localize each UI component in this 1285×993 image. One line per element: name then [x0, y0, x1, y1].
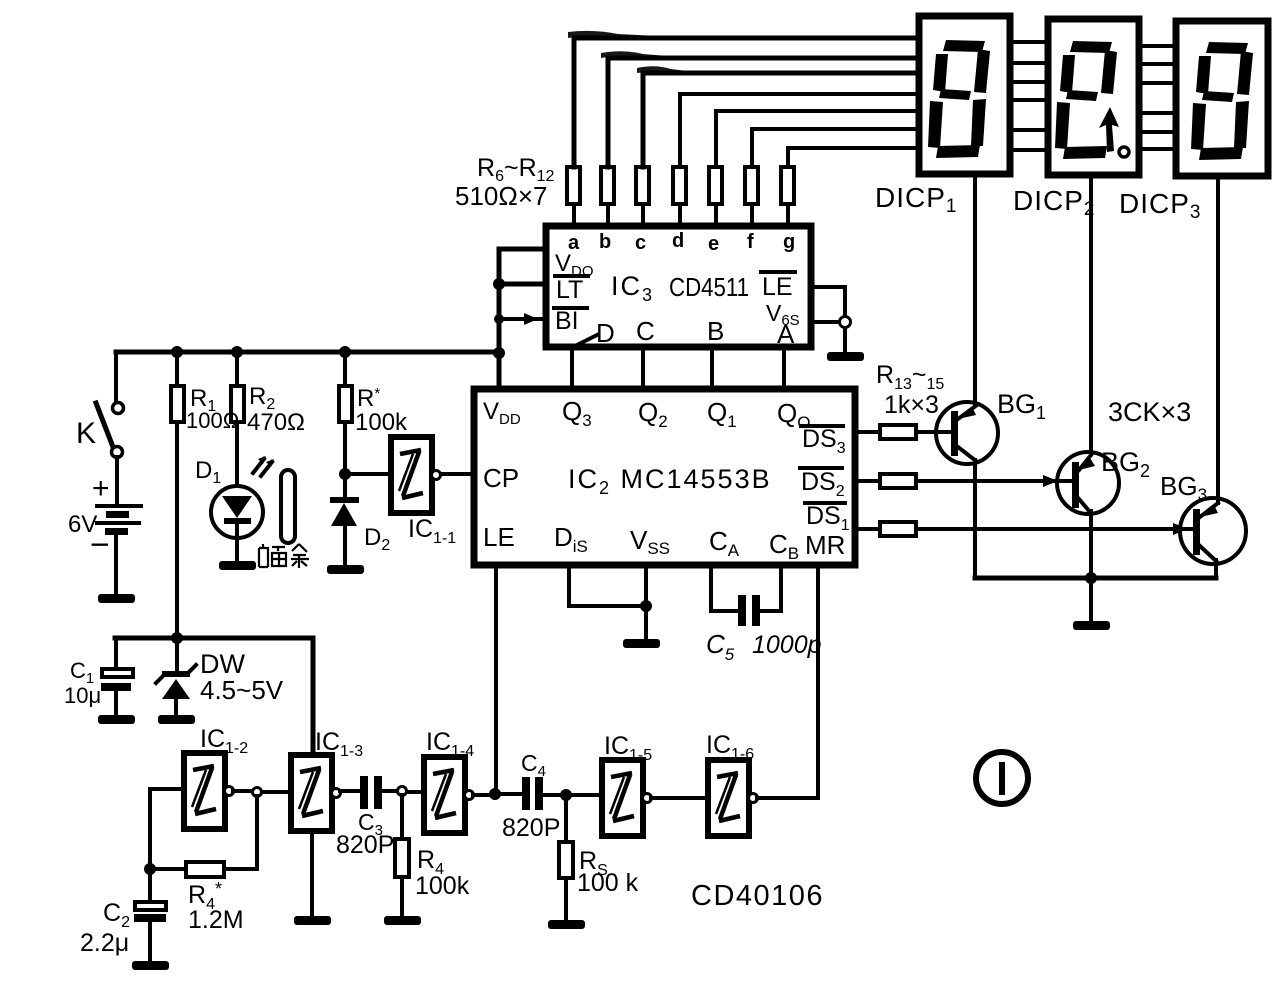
- wire R7 to IC3 pin b: [606, 204, 610, 226]
- inverter IC1-1: [391, 437, 441, 513]
- svg-text:f: f: [747, 231, 754, 253]
- resistor R2: [231, 352, 244, 422]
- svg-text:100k: 100k: [415, 872, 470, 900]
- svg-text:LE: LE: [483, 522, 515, 552]
- svg-text:820P: 820P: [336, 831, 394, 859]
- svg-text:DICP2: DICP2: [1013, 185, 1095, 220]
- wire IC1-2 output to node: [233, 789, 252, 793]
- wire R10 to IC3 pin e: [714, 204, 718, 226]
- wire Q0 to A: [782, 347, 786, 389]
- wire BG3 emitter down: [1214, 560, 1218, 578]
- node after IC1-2: [253, 788, 262, 797]
- LED light arrows: [253, 456, 274, 476]
- svg-text:2.2μ: 2.2μ: [80, 929, 129, 957]
- wire R12 to IC3 pin g: [786, 204, 790, 226]
- capacitor C5: [738, 595, 760, 626]
- wire common emitter rail: [975, 576, 1216, 581]
- wire battery to ground: [114, 535, 118, 593]
- arrowhead on BG2 base wire: [1043, 475, 1058, 487]
- svg-text:CP: CP: [483, 463, 519, 493]
- ground D1: [219, 561, 256, 570]
- wire R13 to BG1 base: [916, 430, 950, 434]
- node Rstar/D2/IC1-1: [339, 468, 351, 480]
- svg-text:510Ω×7: 510Ω×7: [455, 181, 547, 211]
- svg-text:D: D: [596, 318, 615, 348]
- wire LT to IC3: [499, 282, 546, 287]
- 7-segment display DICP3: [1176, 21, 1268, 176]
- arrowhead on BI wire: [524, 313, 538, 325]
- wire IC1-6 output to MR: [757, 565, 818, 798]
- resistor R7: [601, 167, 614, 204]
- svg-text:3CK×3: 3CK×3: [1108, 397, 1191, 427]
- wire VDD to IC3: [499, 247, 546, 252]
- label fu tiao (Chinese): [259, 544, 309, 568]
- IC2 pin label DS1: [805, 502, 850, 534]
- wire IC1-5 output to IC1-6: [651, 796, 708, 800]
- wire IC1-3 bottom to ground: [310, 831, 314, 914]
- resistor R1: [171, 352, 184, 422]
- resistor R15: [880, 522, 916, 536]
- IC2 pin label DS3: [801, 425, 846, 457]
- svg-text:LE: LE: [762, 273, 793, 301]
- wire Dis pin down: [569, 565, 646, 606]
- wire C4 to node: [543, 793, 566, 797]
- capacitor C3: [360, 776, 382, 809]
- node rail R1: [171, 346, 183, 358]
- wire segment g (R12 to DICP1): [788, 148, 919, 167]
- wire VDD feed vertical: [497, 249, 502, 389]
- wire C3 to node: [382, 789, 397, 793]
- wire LE vertical: [494, 565, 498, 794]
- wire low rail down right to IC1-3: [311, 638, 316, 752]
- resistor R9: [673, 167, 686, 204]
- 7-segment display DICP1: [919, 16, 1010, 174]
- inverter IC1-4: [424, 757, 474, 833]
- svg-text:A: A: [777, 319, 795, 349]
- wire rail to switch: [114, 352, 118, 403]
- node rail Rstar: [339, 346, 351, 358]
- supply rail wire: [116, 350, 499, 355]
- wire IC1-4 output to node: [473, 793, 495, 797]
- wire segment f (R11 to DICP1): [752, 129, 919, 167]
- wire DS3 stub: [858, 430, 880, 434]
- wire Vss pin to ground: [644, 565, 648, 637]
- wire R14 to BG2 base: [916, 479, 1071, 483]
- IC3 pin labels a-g: [568, 230, 795, 255]
- resistor R13: [880, 425, 916, 439]
- svg-text:100k: 100k: [355, 409, 408, 436]
- svg-text:−: −: [90, 526, 110, 564]
- wire BG2 emitter down: [1089, 511, 1093, 578]
- IC3 pin label BI: [554, 307, 587, 335]
- wire IC3 LE to right: [811, 287, 845, 322]
- inverter IC1-6: [708, 760, 758, 836]
- wire Q2 to C: [641, 347, 645, 389]
- op IC3 CD4511 body: [546, 226, 811, 347]
- wire R6 to IC3 pin a: [572, 204, 576, 226]
- wires DICP1 to DICP2: [1012, 42, 1046, 150]
- wire node to IC1-4 input: [407, 790, 424, 794]
- op IC2 MC14553B body: [474, 389, 855, 565]
- capacitor C1: [101, 638, 133, 714]
- inverter IC1-5: [602, 760, 652, 836]
- wire BI to IC3: [499, 317, 546, 321]
- svg-text:e: e: [708, 233, 719, 255]
- wire Q3 to D: [570, 347, 574, 389]
- wire segment e (R10 to DICP1): [716, 111, 919, 167]
- wire D1 to ground: [235, 537, 239, 560]
- svg-text:LT: LT: [556, 276, 583, 304]
- wire CA to C5: [711, 565, 738, 611]
- resistor R5: [559, 795, 573, 918]
- svg-text:470Ω: 470Ω: [247, 409, 305, 436]
- node feedback/C2: [144, 863, 156, 875]
- wire segment d (R9 to DICP1): [680, 94, 919, 167]
- wire segment b (R7 to DICP1): [608, 58, 919, 167]
- svg-text:1k×3: 1k×3: [884, 391, 939, 419]
- wire Rstar to node: [343, 422, 347, 474]
- resistor R8: [636, 167, 649, 204]
- spoke bar symbol: [281, 470, 295, 543]
- svg-text:IC2 MC14553B: IC2 MC14553B: [568, 464, 772, 498]
- ground transistors: [1073, 621, 1110, 630]
- node LE junction: [489, 788, 501, 800]
- switch K: [96, 403, 124, 458]
- zener diode Dw: [156, 638, 196, 714]
- capacitor C4: [522, 777, 543, 810]
- wire low supply rail: [115, 636, 313, 641]
- svg-text:DICP1: DICP1: [875, 182, 957, 217]
- diode D2: [330, 474, 359, 564]
- wire R8 to IC3 pin c: [641, 204, 645, 226]
- wire R2 to LED D1: [235, 422, 239, 486]
- inverter IC1-2: [184, 753, 234, 829]
- svg-text:CD40106: CD40106: [691, 880, 824, 912]
- wire segment a (R6 to DICP1): [574, 38, 919, 167]
- resistor R6: [567, 167, 580, 204]
- wire feedback left vertical: [148, 789, 152, 869]
- wire R11 to IC3 pin f: [750, 204, 754, 226]
- wire R15 to BG3 base: [916, 527, 1192, 531]
- ground IC2 Vss: [623, 639, 660, 648]
- resistor R11: [745, 167, 758, 204]
- node LT junction: [493, 278, 505, 290]
- wire switch to battery: [115, 457, 119, 504]
- ground for IC3 Vss: [827, 352, 864, 361]
- slash mark under BI: [573, 335, 597, 347]
- battery 6V: [97, 506, 141, 535]
- ground R5: [548, 920, 585, 929]
- node LE/Vss junction: [840, 317, 851, 328]
- svg-text:MR: MR: [805, 530, 845, 560]
- node emitter rail: [1085, 572, 1097, 584]
- wires DICP2 to DICP3: [1141, 46, 1174, 149]
- wire DICP2 common to BG2 collector: [1089, 178, 1093, 453]
- svg-text:820P: 820P: [502, 814, 560, 842]
- wire R9 to IC3 pin d: [678, 204, 682, 226]
- ground R4: [384, 916, 421, 925]
- wire DS1 stub: [858, 527, 880, 531]
- svg-text:100 k: 100 k: [577, 869, 639, 897]
- svg-text:4.5~5V: 4.5~5V: [200, 675, 284, 705]
- wire BG1 emitter down: [973, 460, 977, 578]
- transistor BG1: [936, 402, 998, 464]
- figure number circled 1: [976, 752, 1028, 804]
- node Dis/Vss: [640, 600, 652, 612]
- ground C1: [98, 715, 135, 724]
- svg-text:BI: BI: [555, 307, 579, 335]
- wire DICP3 common to BG3 collector: [1216, 179, 1220, 503]
- wire node to C4: [495, 792, 522, 796]
- wire IC1-1 to CP: [441, 472, 474, 476]
- node rail R2: [231, 346, 243, 358]
- svg-text:K: K: [76, 417, 96, 450]
- resistor R12: [781, 167, 794, 204]
- arrowhead on BG3 base wire: [1173, 523, 1188, 535]
- node after C3: [398, 787, 407, 796]
- svg-text:b: b: [599, 231, 611, 253]
- wire DICP1 common to BG1 collector: [973, 177, 977, 404]
- svg-text:1.2M: 1.2M: [188, 906, 244, 934]
- svg-text:10μ: 10μ: [64, 683, 101, 708]
- node after C4: [560, 789, 572, 801]
- node low rail Dw: [171, 632, 183, 644]
- resistor R4: [395, 795, 409, 914]
- ground Dw: [158, 715, 195, 724]
- svg-text:+: +: [92, 472, 110, 505]
- capacitor C2: [134, 869, 166, 959]
- wire IC1-3 output to C3: [340, 789, 360, 793]
- IC3 pin label LE: [761, 272, 795, 301]
- resistor Rstar: [339, 352, 352, 422]
- wire DS2 stub: [858, 479, 880, 483]
- wire Q1 to B: [710, 347, 714, 389]
- wire node down to R4star: [224, 796, 257, 869]
- ground battery: [98, 594, 135, 603]
- node supply rail junction: [493, 347, 505, 359]
- wire IC1-2 input: [150, 787, 184, 791]
- svg-text:CD4511: CD4511: [669, 272, 749, 302]
- wire node to IC1-3 input: [262, 790, 291, 794]
- transistor BG2: [1057, 452, 1119, 514]
- resistor R4star: [150, 862, 224, 877]
- wire rail to ground: [1089, 578, 1093, 620]
- svg-text:1000p: 1000p: [752, 631, 822, 659]
- ground C2: [132, 961, 169, 970]
- wire IC3 Vss/A to right: [811, 322, 845, 352]
- transistor BG3: [1180, 498, 1246, 564]
- svg-text:DICP3: DICP3: [1119, 188, 1201, 223]
- node BI junction: [494, 314, 504, 324]
- resistor R10: [709, 167, 722, 204]
- wire CB to C5: [760, 565, 781, 611]
- svg-text:g: g: [783, 231, 795, 253]
- svg-text:B: B: [707, 316, 724, 346]
- ground D2: [327, 565, 364, 574]
- inverter IC1-3: [291, 755, 341, 831]
- IC3 pin label LT: [555, 276, 588, 304]
- svg-text:c: c: [635, 232, 646, 254]
- 7-segment display DICP2: [1048, 19, 1139, 175]
- wire segment c (R8 to DICP1): [643, 73, 919, 167]
- ground IC1-3: [294, 916, 331, 925]
- wire node to IC1-1 input: [345, 472, 391, 476]
- resistor R14: [880, 474, 916, 488]
- IC2 pin label DS2: [800, 468, 845, 500]
- wire node to IC1-5 input: [566, 793, 602, 797]
- LED D1: [211, 486, 263, 538]
- ink smudge at wire bends: [568, 31, 687, 75]
- wire R1 down to low rail: [175, 422, 179, 638]
- svg-text:C: C: [636, 316, 655, 346]
- svg-text:d: d: [672, 230, 684, 252]
